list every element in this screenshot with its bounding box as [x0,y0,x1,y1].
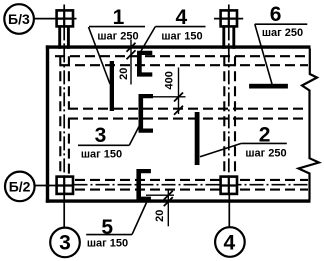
wire dimension 20 bottom [167,190,169,226]
wire break line right edge with zigzags [299,49,319,200]
column at B/2-3 [57,177,73,194]
wire stub above top-right column [228,5,230,11]
node circle B/2 [5,172,35,202]
rebar 4 [137,51,152,77]
svg-text:шаг 250: шаг 250 [245,148,286,160]
node circle 3 [50,228,80,258]
wire axis 3 dash-dot centerline [63,26,65,176]
node circle 4 [215,227,245,257]
svg-text:2: 2 [259,124,271,147]
svg-text:3: 3 [59,232,71,255]
wire middle band lower dashed line [68,118,308,120]
column at B/3-3 [57,10,73,26]
column at B/2-4 [221,177,237,194]
column at B/3-4 [221,10,237,26]
wire leader label 5 [86,234,132,236]
wire middle band upper dashed line [68,108,308,110]
column wall lines below top-right column [222,26,225,48]
wire dimension 400 [178,68,180,115]
wire dashed inner edge below top wall [55,55,308,57]
svg-text:шаг 250: шаг 250 [262,27,303,39]
svg-text:4: 4 [175,6,187,29]
wire dashed beam edge right of axis 4 [234,56,236,176]
svg-text:шаг 250: шаг 250 [97,30,138,42]
svg-text:шаг 150: шаг 150 [87,238,128,250]
svg-text:20: 20 [118,68,130,80]
wire axis 4 dash-dot centerline [228,26,230,176]
wire dashed beam edge above axis B/2 [75,179,308,181]
wire bottom wall edge [46,199,311,202]
wire axis B/2 dash-dot centerline [74,184,309,186]
rebar 3 [139,94,154,133]
rebar 5 [136,169,151,201]
wire dashed beam edge below axis B/2 [75,189,308,191]
svg-text:6: 6 [270,3,282,26]
wire leader label 2 [241,142,286,144]
svg-text:шаг 150: шаг 150 [81,149,122,161]
node axis 4 top connector line [214,18,243,20]
wire dashed beam edge right of axis 3 lower part [68,119,70,177]
wire dashed beam edge right of axis 3 upper part [68,56,70,109]
wire dimension 20 top [130,40,132,85]
svg-text:шаг 150: шаг 150 [161,30,202,42]
svg-text:Б/2: Б/2 [9,178,31,194]
wire leader label 6 [255,23,307,25]
wire axis 4 line down to circle 4 [228,194,230,228]
svg-text:5: 5 [101,216,113,239]
wire top wall edge [46,45,311,48]
node axis B/3 connector line [34,18,77,20]
svg-text:3: 3 [95,124,107,147]
svg-text:400: 400 [164,71,176,89]
wire dashed beam edge left of axis 4 [223,56,225,176]
svg-text:1: 1 [113,6,125,29]
wire left wall edge [46,45,49,202]
wire axis 3 line down to circle 3 [63,194,65,228]
rebar 1 [110,61,114,111]
node axis B/2 connector line [35,185,57,187]
wire stub above top-left column [63,5,65,11]
wire dashed beam edge left of axis 3 [59,56,61,176]
wire leader label 4 [155,26,205,28]
rebar 6 [249,84,288,89]
node circle B/3 [4,4,34,34]
wire second dashed line below top wall [60,64,308,66]
svg-text:20: 20 [154,210,166,222]
wire leader label 1 [89,26,145,28]
rebar 2 [195,112,200,165]
svg-text:4: 4 [224,231,236,254]
svg-text:Б/3: Б/3 [8,11,30,27]
wire leader label 3 [78,144,129,146]
column wall lines below top-left column [58,26,61,48]
